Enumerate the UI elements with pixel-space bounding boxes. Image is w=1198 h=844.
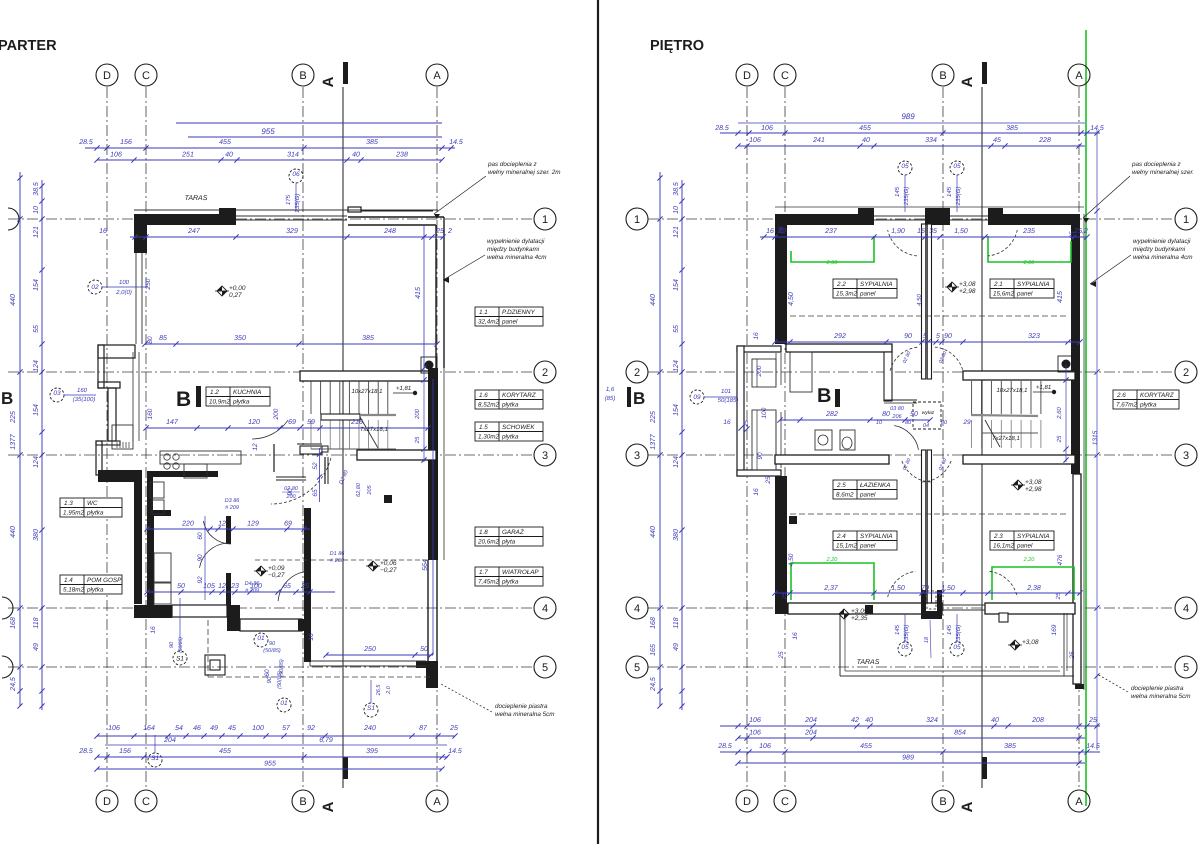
svg-text:04: 04 xyxy=(923,423,929,429)
svg-text:+1,81: +1,81 xyxy=(396,385,411,392)
svg-text:440: 440 xyxy=(650,294,657,306)
svg-text:989: 989 xyxy=(901,112,915,121)
svg-text:+2,98: +2,98 xyxy=(1025,486,1042,493)
svg-text:12: 12 xyxy=(252,443,259,451)
svg-text:WC: WC xyxy=(87,500,98,507)
svg-text:2.4: 2.4 xyxy=(836,533,846,540)
svg-text:S1: S1 xyxy=(367,705,375,712)
svg-text:3: 3 xyxy=(542,450,548,462)
svg-text:92: 92 xyxy=(197,576,204,584)
svg-text:440: 440 xyxy=(10,526,17,538)
svg-text:40: 40 xyxy=(862,137,870,144)
svg-text:D1 86: D1 86 xyxy=(330,551,346,557)
svg-text:25: 25 xyxy=(300,583,309,590)
svg-text:25: 25 xyxy=(765,476,772,485)
svg-text:385: 385 xyxy=(362,335,374,342)
svg-text:121: 121 xyxy=(673,226,680,238)
svg-text:TARAS: TARAS xyxy=(857,659,880,666)
svg-text:90: 90 xyxy=(904,333,912,340)
svg-text:129: 129 xyxy=(247,521,259,528)
svg-text:2.5: 2.5 xyxy=(836,482,846,489)
svg-text:16: 16 xyxy=(792,632,799,640)
svg-text:2.3: 2.3 xyxy=(993,533,1003,540)
svg-text:(85): (85) xyxy=(605,395,616,402)
svg-text:14.5: 14.5 xyxy=(448,748,462,755)
svg-text:440: 440 xyxy=(10,294,17,306)
svg-text:1: 1 xyxy=(542,214,548,226)
svg-text:124: 124 xyxy=(673,360,680,372)
svg-text:płyta: płyta xyxy=(501,539,516,546)
svg-text:25: 25 xyxy=(435,228,444,235)
svg-text:GARAŻ: GARAŻ xyxy=(502,528,525,536)
svg-text:2,38: 2,38 xyxy=(1026,585,1041,592)
svg-text:235(G): 235(G) xyxy=(955,187,962,207)
svg-text:70: 70 xyxy=(921,585,929,592)
svg-text:204: 204 xyxy=(804,717,817,724)
svg-text:175: 175 xyxy=(285,194,292,205)
svg-text:B: B xyxy=(939,796,946,808)
svg-text:169: 169 xyxy=(1051,624,1058,635)
svg-text:90: 90 xyxy=(269,641,276,647)
svg-text:2: 2 xyxy=(542,367,548,379)
svg-text:płytka: płytka xyxy=(1139,402,1157,409)
svg-text:200: 200 xyxy=(285,494,296,500)
svg-text:106: 106 xyxy=(759,743,771,750)
svg-text:238: 238 xyxy=(395,152,408,159)
svg-text:KUCHNIA: KUCHNIA xyxy=(233,389,261,396)
svg-text:49: 49 xyxy=(210,725,218,732)
svg-text:92: 92 xyxy=(307,725,315,732)
svg-text:25: 25 xyxy=(1069,231,1076,240)
svg-text:D: D xyxy=(103,796,111,808)
svg-text:154: 154 xyxy=(673,279,680,291)
svg-text:2,0: 2,0 xyxy=(386,685,392,695)
svg-text:D3 86: D3 86 xyxy=(225,498,241,504)
svg-text:32,4m2: 32,4m2 xyxy=(478,319,500,326)
svg-text:200: 200 xyxy=(414,408,421,420)
svg-text:235(G): 235(G) xyxy=(294,194,301,214)
svg-text:7,67m2: 7,67m2 xyxy=(1116,402,1138,409)
svg-text:455: 455 xyxy=(219,139,231,146)
svg-text:wełna mineralna 5cm: wełna mineralna 5cm xyxy=(1131,693,1191,700)
svg-text:235(G): 235(G) xyxy=(903,625,910,645)
svg-text:380: 380 xyxy=(33,529,40,541)
svg-text:90: 90 xyxy=(944,333,952,340)
svg-text:989: 989 xyxy=(902,755,914,762)
svg-text:2,37: 2,37 xyxy=(823,585,839,592)
svg-text:90: 90 xyxy=(757,452,764,460)
svg-text:564: 564 xyxy=(422,559,429,571)
svg-text:płytka: płytka xyxy=(86,510,104,517)
svg-text:14.5: 14.5 xyxy=(449,139,463,146)
svg-text:2.1: 2.1 xyxy=(993,281,1003,288)
svg-text:106: 106 xyxy=(749,730,761,737)
svg-text:docieplenie piastra: docieplenie piastra xyxy=(495,703,548,710)
svg-text:1,6: 1,6 xyxy=(606,386,615,393)
svg-text:1315: 1315 xyxy=(1092,430,1099,445)
svg-text:05: 05 xyxy=(953,644,961,651)
svg-text:01: 01 xyxy=(280,700,288,707)
svg-text:106: 106 xyxy=(108,725,120,732)
svg-text:228: 228 xyxy=(1038,137,1051,144)
svg-text:106: 106 xyxy=(749,137,761,144)
svg-text:1,50: 1,50 xyxy=(891,585,905,592)
svg-text:wełny mineralnej szer.: wełny mineralnej szer. xyxy=(1132,169,1194,176)
svg-text:235(G): 235(G) xyxy=(903,187,910,207)
svg-text:2,00: 2,00 xyxy=(1023,260,1036,266)
svg-text:14.5: 14.5 xyxy=(1086,743,1100,750)
svg-text:D: D xyxy=(743,796,751,808)
svg-text:28.5: 28.5 xyxy=(717,743,732,750)
svg-text:5: 5 xyxy=(923,333,927,340)
svg-text:25: 25 xyxy=(778,651,785,660)
svg-text:282: 282 xyxy=(825,411,838,418)
svg-text:7x27x18,1: 7x27x18,1 xyxy=(992,435,1020,442)
svg-text:1.3: 1.3 xyxy=(64,500,73,507)
svg-text:5,18m2: 5,18m2 xyxy=(63,587,85,594)
svg-text:124: 124 xyxy=(33,360,40,372)
svg-text:323: 323 xyxy=(1028,333,1040,340)
svg-text:wyłaz: wyłaz xyxy=(922,410,935,416)
svg-text:28.5: 28.5 xyxy=(714,125,729,132)
svg-text:46: 46 xyxy=(193,725,201,732)
svg-text:314: 314 xyxy=(287,152,299,159)
svg-text:PIĘTRO: PIĘTRO xyxy=(650,38,704,54)
svg-text:160: 160 xyxy=(77,387,88,394)
svg-text:156: 156 xyxy=(119,748,131,755)
svg-text:2,20: 2,20 xyxy=(826,557,839,563)
svg-text:324: 324 xyxy=(926,717,938,724)
svg-text:62,80: 62,80 xyxy=(356,482,362,497)
svg-text:54: 54 xyxy=(175,725,183,732)
svg-text:1377: 1377 xyxy=(650,433,657,450)
svg-text:S1: S1 xyxy=(151,755,159,762)
svg-text:415: 415 xyxy=(1057,291,1064,303)
svg-text:100: 100 xyxy=(761,407,768,418)
svg-text:6,79: 6,79 xyxy=(319,737,333,744)
svg-text:59: 59 xyxy=(307,419,315,426)
svg-text:# 209: # 209 xyxy=(225,505,239,511)
svg-text:7x27x18,1: 7x27x18,1 xyxy=(360,426,388,433)
svg-text:25: 25 xyxy=(1055,592,1062,600)
svg-text:SYPIALNIA: SYPIALNIA xyxy=(1017,281,1050,288)
svg-text:247: 247 xyxy=(187,228,201,235)
svg-text:03: 03 xyxy=(53,390,61,397)
svg-text:8,52m2: 8,52m2 xyxy=(478,402,500,409)
svg-text:118: 118 xyxy=(33,617,40,628)
svg-text:15,6m2: 15,6m2 xyxy=(993,291,1015,298)
svg-text:+2,35: +2,35 xyxy=(851,615,868,622)
svg-text:2: 2 xyxy=(1183,367,1189,379)
svg-text:205: 205 xyxy=(367,484,373,495)
svg-text:# 209: # 209 xyxy=(245,588,259,594)
svg-text:106: 106 xyxy=(110,152,122,159)
svg-text:49: 49 xyxy=(33,643,40,651)
svg-text:2: 2 xyxy=(447,228,452,235)
svg-text:100: 100 xyxy=(252,725,264,732)
svg-text:60: 60 xyxy=(197,532,204,540)
svg-text:D: D xyxy=(103,70,111,82)
svg-text:10x27x18,1: 10x27x18,1 xyxy=(351,388,382,395)
svg-text:50: 50 xyxy=(910,411,918,418)
svg-text:28.5: 28.5 xyxy=(78,139,93,146)
svg-text:POM GOSP: POM GOSP xyxy=(87,577,122,584)
svg-text:B: B xyxy=(633,389,645,408)
svg-text:52: 52 xyxy=(312,462,319,470)
svg-text:25: 25 xyxy=(1069,651,1076,660)
svg-text:45: 45 xyxy=(993,137,1001,144)
svg-text:55: 55 xyxy=(673,325,680,333)
svg-text:118: 118 xyxy=(673,617,680,628)
svg-text:80: 80 xyxy=(147,336,154,344)
svg-text:87: 87 xyxy=(419,725,428,732)
svg-text:10,9m2: 10,9m2 xyxy=(209,399,231,406)
svg-text:385: 385 xyxy=(1006,125,1018,132)
svg-text:wełna mineralna 4cm: wełna mineralna 4cm xyxy=(1133,254,1193,261)
svg-text:90: 90 xyxy=(197,554,204,562)
svg-text:200: 200 xyxy=(756,365,763,377)
svg-text:1.1: 1.1 xyxy=(479,309,488,316)
svg-text:25: 25 xyxy=(449,725,458,732)
svg-text:241: 241 xyxy=(812,137,825,144)
svg-text:40: 40 xyxy=(865,717,873,724)
svg-text:16,1m2: 16,1m2 xyxy=(993,543,1015,550)
svg-text:S1: S1 xyxy=(176,655,184,662)
svg-text:8,6m2: 8,6m2 xyxy=(836,492,854,499)
svg-text:147: 147 xyxy=(166,419,179,426)
svg-text:(50/85): (50/85) xyxy=(178,637,184,653)
svg-text:80: 80 xyxy=(941,420,948,426)
svg-text:PARTER: PARTER xyxy=(0,38,57,54)
svg-text:między budynkami: między budynkami xyxy=(1133,246,1186,253)
svg-text:C: C xyxy=(142,70,150,82)
svg-text:wełna mineralna 4cm: wełna mineralna 4cm xyxy=(487,254,547,261)
svg-text:1.8: 1.8 xyxy=(479,529,488,536)
svg-text:55: 55 xyxy=(33,325,40,333)
svg-text:15,1m2: 15,1m2 xyxy=(836,543,858,550)
svg-text:16: 16 xyxy=(150,626,157,634)
svg-text:C: C xyxy=(142,796,150,808)
svg-text:05: 05 xyxy=(953,163,961,170)
svg-text:69: 69 xyxy=(284,521,292,528)
svg-text:(50(85): (50(85) xyxy=(277,671,283,689)
svg-text:1,95m2: 1,95m2 xyxy=(63,510,85,517)
svg-text:wypełnienie dylatacji: wypełnienie dylatacji xyxy=(487,238,545,245)
svg-text:57: 57 xyxy=(282,725,291,732)
svg-text:329: 329 xyxy=(286,228,298,235)
svg-text:29: 29 xyxy=(962,419,971,426)
svg-text:1.7: 1.7 xyxy=(479,569,488,576)
svg-text:10x27x18,1: 10x27x18,1 xyxy=(996,387,1027,394)
svg-text:18: 18 xyxy=(924,636,930,643)
svg-text:80: 80 xyxy=(882,411,890,418)
svg-text:955: 955 xyxy=(261,127,275,136)
svg-text:168: 168 xyxy=(650,617,657,629)
svg-text:płytka: płytka xyxy=(86,587,104,594)
svg-text:100: 100 xyxy=(119,279,130,286)
svg-text:B: B xyxy=(939,70,946,82)
svg-text:płytka: płytka xyxy=(232,399,250,406)
svg-text:TARAS: TARAS xyxy=(185,195,208,202)
svg-text:+1,81: +1,81 xyxy=(1036,384,1051,391)
svg-text:16: 16 xyxy=(723,419,731,426)
svg-text:16: 16 xyxy=(99,228,107,235)
svg-text:B: B xyxy=(817,385,831,407)
svg-text:385: 385 xyxy=(1004,743,1016,750)
svg-text:1: 1 xyxy=(634,214,640,226)
svg-text:1,50: 1,50 xyxy=(954,228,968,235)
svg-text:250: 250 xyxy=(363,646,376,653)
svg-text:(50/85): (50/85) xyxy=(263,648,281,654)
svg-text:# 200: # 200 xyxy=(330,558,345,564)
svg-text:20,6m2: 20,6m2 xyxy=(477,539,500,546)
svg-text:25: 25 xyxy=(1056,435,1063,443)
svg-text:154: 154 xyxy=(673,404,680,416)
svg-text:16: 16 xyxy=(308,633,315,641)
svg-text:0,27: 0,27 xyxy=(229,292,242,299)
svg-text:385: 385 xyxy=(366,139,378,146)
svg-text:+3,05: +3,05 xyxy=(851,608,868,615)
svg-text:120: 120 xyxy=(248,419,260,426)
svg-text:+2,98: +2,98 xyxy=(959,288,976,295)
svg-text:69: 69 xyxy=(288,419,296,426)
svg-text:16: 16 xyxy=(766,228,774,235)
svg-text:B: B xyxy=(176,388,191,411)
svg-text:1.6: 1.6 xyxy=(479,392,488,399)
svg-text:panel: panel xyxy=(859,291,876,298)
svg-text:4,50: 4,50 xyxy=(916,294,923,306)
svg-text:1.4: 1.4 xyxy=(64,577,73,584)
svg-text:955: 955 xyxy=(264,761,276,768)
svg-text:154: 154 xyxy=(33,279,40,291)
svg-text:−0,27: −0,27 xyxy=(380,567,397,574)
svg-text:B: B xyxy=(299,70,306,82)
svg-text:1,90: 1,90 xyxy=(891,228,905,235)
svg-text:5: 5 xyxy=(634,662,640,674)
svg-text:216: 216 xyxy=(350,419,363,426)
svg-text:A: A xyxy=(320,801,337,812)
svg-text:2: 2 xyxy=(634,367,640,379)
svg-text:B: B xyxy=(1,389,13,408)
svg-text:1.5: 1.5 xyxy=(479,424,488,431)
svg-text:106: 106 xyxy=(749,717,761,724)
svg-text:49: 49 xyxy=(673,643,680,651)
svg-text:28.5: 28.5 xyxy=(78,748,93,755)
svg-text:4: 4 xyxy=(634,603,640,615)
svg-text:40: 40 xyxy=(991,717,999,724)
svg-text:350: 350 xyxy=(234,335,246,342)
svg-text:wełny mineralnej szer. 2m: wełny mineralnej szer. 2m xyxy=(488,169,561,176)
svg-text:90: 90 xyxy=(169,641,175,648)
svg-text:4: 4 xyxy=(542,603,548,615)
svg-text:455: 455 xyxy=(859,125,871,132)
svg-text:5: 5 xyxy=(1183,662,1189,674)
svg-text:10: 10 xyxy=(876,420,883,426)
svg-text:200: 200 xyxy=(273,408,280,420)
svg-text:24,5: 24,5 xyxy=(10,677,17,692)
svg-text:02 80: 02 80 xyxy=(284,486,299,492)
svg-text:235: 235 xyxy=(1022,228,1035,235)
svg-text:145: 145 xyxy=(894,624,901,635)
svg-text:2.2: 2.2 xyxy=(836,281,846,288)
svg-text:01: 01 xyxy=(257,635,265,642)
svg-text:4,50: 4,50 xyxy=(788,292,795,306)
svg-text:124: 124 xyxy=(673,456,680,468)
svg-text:2.6: 2.6 xyxy=(1116,392,1126,399)
svg-text:A: A xyxy=(1075,796,1083,808)
svg-text:16: 16 xyxy=(917,228,925,235)
svg-text:250: 250 xyxy=(145,278,152,290)
svg-text:251: 251 xyxy=(181,152,194,159)
svg-text:106: 106 xyxy=(761,125,773,132)
svg-text:145: 145 xyxy=(946,624,953,635)
svg-text:C: C xyxy=(781,70,789,82)
svg-text:−0,27: −0,27 xyxy=(268,572,285,579)
svg-text:10: 10 xyxy=(673,206,680,214)
svg-text:między budynkami: między budynkami xyxy=(487,246,540,253)
svg-text:16: 16 xyxy=(753,488,760,496)
svg-text:248: 248 xyxy=(383,228,396,235)
svg-text:165: 165 xyxy=(650,644,657,656)
svg-text:SYPIALNIA: SYPIALNIA xyxy=(860,533,893,540)
svg-text:237: 237 xyxy=(824,228,838,235)
svg-text:1,30m2: 1,30m2 xyxy=(478,434,500,441)
svg-text:124: 124 xyxy=(33,456,40,468)
svg-text:60: 60 xyxy=(264,669,271,677)
svg-text:03 80: 03 80 xyxy=(890,406,905,412)
svg-text:SYPIALNIA: SYPIALNIA xyxy=(860,281,893,288)
svg-text:płytka: płytka xyxy=(501,434,519,441)
svg-text:SCHOWEK: SCHOWEK xyxy=(502,424,535,431)
svg-text:09: 09 xyxy=(693,394,701,401)
svg-text:85: 85 xyxy=(159,335,167,342)
svg-text:06: 06 xyxy=(292,171,300,178)
svg-text:15,3m2: 15,3m2 xyxy=(836,291,858,298)
svg-text:35: 35 xyxy=(929,228,937,235)
svg-text:płytka: płytka xyxy=(501,402,519,409)
svg-text:854: 854 xyxy=(954,730,966,737)
svg-text:+3,08: +3,08 xyxy=(1022,639,1039,646)
svg-text:3: 3 xyxy=(634,450,640,462)
svg-text:156: 156 xyxy=(120,139,132,146)
svg-text:240: 240 xyxy=(363,725,376,732)
svg-text:38.5: 38.5 xyxy=(33,182,40,196)
svg-text:A: A xyxy=(959,801,976,812)
svg-text:panel: panel xyxy=(859,543,876,550)
svg-text:3: 3 xyxy=(1183,450,1189,462)
svg-text:A: A xyxy=(320,76,337,87)
svg-text:+3,08: +3,08 xyxy=(959,281,976,288)
svg-text:415: 415 xyxy=(415,287,422,299)
svg-text:145: 145 xyxy=(894,186,901,197)
svg-text:WIATROŁAP: WIATROŁAP xyxy=(502,569,539,576)
svg-text:101: 101 xyxy=(721,388,731,395)
svg-text:25: 25 xyxy=(781,592,788,600)
svg-text:C: C xyxy=(781,796,789,808)
svg-text:10: 10 xyxy=(33,206,40,214)
svg-text:5: 5 xyxy=(542,662,548,674)
svg-text:455: 455 xyxy=(219,748,231,755)
svg-text:65: 65 xyxy=(312,489,319,497)
svg-text:5: 5 xyxy=(936,333,940,340)
svg-text:P.DZIENNY: P.DZIENNY xyxy=(502,309,536,316)
svg-text:2,00: 2,00 xyxy=(826,260,839,266)
svg-text:+3,08: +3,08 xyxy=(1025,479,1042,486)
svg-text:płytka: płytka xyxy=(501,579,519,586)
svg-text:334: 334 xyxy=(925,137,937,144)
svg-text:26,5: 26,5 xyxy=(376,684,382,697)
svg-text:KORYTARZ: KORYTARZ xyxy=(1140,392,1175,399)
